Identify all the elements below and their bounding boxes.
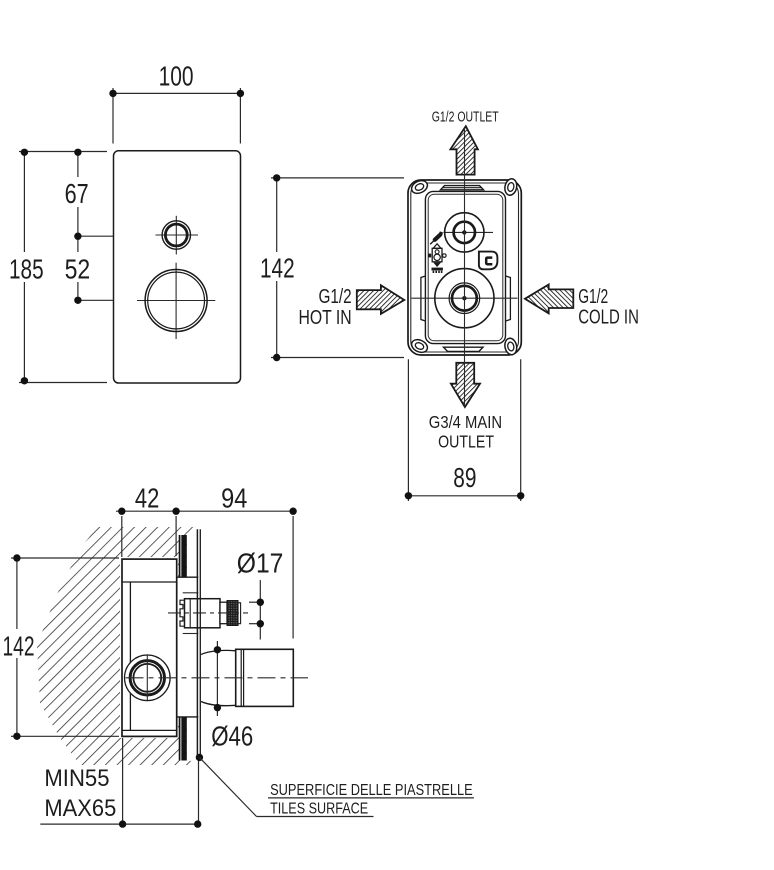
vertical centerline through box and arrows: [464, 128, 466, 407]
svg-text:COLD IN: COLD IN: [578, 307, 639, 329]
front plate rectangle: [114, 151, 241, 383]
trim sleeve cone: [201, 650, 236, 654]
rough-in box outer shell: [408, 180, 521, 355]
stem neck: [220, 602, 227, 624]
svg-text:Ø46: Ø46: [211, 720, 253, 751]
dim 142 (box height): [271, 178, 404, 358]
white cutouts: box and bracket zone: [120, 557, 178, 738]
svg-text:MIN55: MIN55: [44, 765, 109, 792]
tile surface plate: [196, 529, 198, 757]
dim text 67: [61, 177, 92, 207]
dim 89 dots: [405, 492, 412, 499]
svg-text:MAX65: MAX65: [44, 795, 116, 822]
socket vertical crosshair: [146, 655, 148, 700]
dim text 142 section: [0, 629, 36, 658]
upper cartridge circle: [445, 213, 484, 252]
wall hatch: [37, 527, 197, 765]
plaster guard strip bottom (solid): [179, 717, 187, 761]
bottom flange notch: [444, 347, 484, 351]
cold in arrow (left, hatched): [525, 285, 573, 314]
svg-text:G3/4 MAIN: G3/4 MAIN: [429, 412, 502, 432]
cartridge stem body: [185, 599, 221, 628]
corner oval top-right: [503, 178, 518, 197]
dim 89 (box width): [408, 359, 520, 501]
svg-text:142: 142: [260, 253, 295, 284]
svg-text:100: 100: [159, 60, 194, 91]
tiles surface leader: [196, 754, 203, 761]
large knob circle crosshair: [137, 263, 215, 339]
stem axis centerline: [168, 612, 248, 614]
svg-text:142: 142: [3, 630, 35, 661]
svg-text:HOT IN: HOT IN: [299, 307, 352, 329]
svg-text:42: 42: [135, 482, 159, 513]
lever icon: [430, 239, 436, 245]
svg-text:89: 89: [453, 462, 476, 493]
corner oval top-left: [410, 178, 430, 196]
left side tab: [421, 276, 426, 321]
upper cartridge circle crosshair: [444, 231, 494, 233]
sleeve axis centerline: [126, 677, 309, 679]
dim text 185: [6, 252, 46, 282]
dim text 52: [61, 252, 93, 282]
svg-text:Ø17: Ø17: [237, 548, 284, 579]
svg-text:TILES SURFACE: TILES SURFACE: [270, 801, 368, 818]
dim 100 top dimension line: [113, 88, 240, 144]
hot in arrow (right, hatched): [357, 285, 405, 314]
large knob circle: [145, 270, 207, 332]
dim 42/94 dots: [118, 508, 125, 515]
dim 142 (section): [11, 558, 119, 736]
knurled adjustment knob: [227, 601, 238, 626]
lower cartridge circle: [435, 269, 494, 328]
dim Ø17: [249, 580, 260, 639]
dim 142 section dots: [13, 554, 20, 561]
dim 100 end dots: [109, 90, 116, 97]
dim text 142: [258, 252, 296, 281]
dim 67/52 dots: [74, 149, 81, 156]
dim 185 end dots: [21, 149, 28, 156]
pressure valve icon: [433, 244, 441, 249]
box inner lid lines: [122, 581, 177, 583]
top flange notch: [441, 186, 484, 190]
right side tab: [506, 276, 511, 321]
bracket flange lines: [177, 576, 199, 578]
dim Ø46: [216, 641, 218, 716]
trim sleeve: [236, 649, 294, 706]
small knob circle: [162, 221, 190, 249]
svg-text:G1/2: G1/2: [578, 286, 608, 308]
logo badge C: [479, 252, 498, 270]
outlet socket circle (section): [125, 655, 171, 701]
dim 42 / 94 top dimension line: [116, 511, 293, 638]
small knob circle crosshair: [156, 216, 199, 255]
valve body box (section): [122, 559, 177, 736]
outlet arrow (up, hatched): [450, 126, 478, 174]
svg-text:94: 94: [221, 482, 247, 513]
svg-text:185: 185: [9, 253, 44, 284]
dim 67/52 inner dimension line: [78, 152, 147, 300]
dim 142 dots: [273, 174, 280, 181]
cartridge stem ribs: [180, 600, 185, 626]
corner oval bottom-left: [410, 337, 430, 355]
main outlet arrow (down, hatched): [451, 363, 480, 407]
svg-text:OUTLET: OUTLET: [438, 432, 494, 452]
inner rounded frame: [425, 191, 505, 343]
svg-text:52: 52: [65, 253, 91, 284]
dim 185 left dimension line: [19, 152, 107, 383]
corner oval bottom-right: [503, 337, 518, 356]
dim MIN55/MAX65: [40, 738, 198, 824]
svg-text:67: 67: [65, 178, 89, 209]
svg-text:G1/2 OUTLET: G1/2 OUTLET: [432, 109, 499, 126]
plaster guard strip top (solid): [179, 535, 187, 577]
svg-text:SUPERFICIE DELLE PIASTRELLE: SUPERFICIE DELLE PIASTRELLE: [270, 782, 473, 799]
lower cartridge circle crosshair: [412, 297, 518, 299]
svg-text:G1/2: G1/2: [319, 286, 352, 308]
